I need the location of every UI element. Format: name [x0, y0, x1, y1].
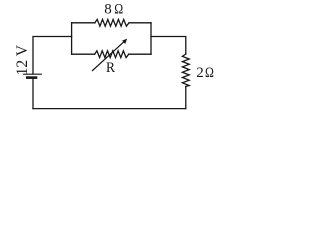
wire: box top branch right lead — [129, 22, 151, 24]
battery positive plate (long thin) — [24, 73, 42, 75]
svg-text:Ω: Ω — [205, 64, 214, 81]
arrow of variable resistor R — [92, 41, 125, 71]
svg-text:12 V: 12 V — [14, 44, 31, 75]
svg-text:R: R — [106, 59, 115, 76]
wire: box top branch left lead — [72, 22, 95, 24]
variable resistor R zigzag — [95, 51, 129, 58]
wire: box right junction to top-right corner and down — [151, 37, 186, 55]
wire: box right edge — [150, 23, 152, 54]
wire: bottom — [33, 108, 186, 110]
wire: top-left from battery top to parallel box left junction — [33, 37, 72, 75]
svg-text:8: 8 — [104, 2, 112, 18]
wire: bottom-left up to battery bottom — [32, 79, 34, 109]
wire: box bottom branch right lead — [129, 53, 151, 55]
wire: box left edge — [71, 23, 73, 54]
svg-text:2: 2 — [196, 65, 204, 81]
svg-text:Ω: Ω — [114, 0, 123, 17]
wire: right side bottom — [185, 87, 187, 109]
resistor 8 ohm zigzag — [95, 19, 129, 26]
wire: box bottom branch left lead — [72, 53, 95, 55]
arrowhead of variable resistor R — [122, 39, 127, 44]
resistor 2 ohm vertical zigzag — [182, 54, 189, 87]
battery negative plate (short thick) — [27, 76, 36, 79]
